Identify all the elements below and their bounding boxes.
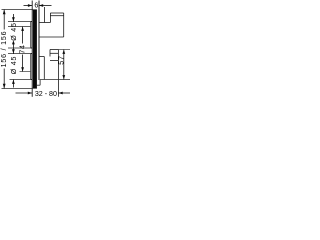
wall line — [38, 1, 40, 81]
lower column join edge — [39, 56, 44, 58]
bottom spigot bottom edge — [37, 84, 40, 86]
plate top cap — [32, 9, 37, 11]
upper box right edge — [63, 13, 65, 37]
plate bar (solid) — [33, 10, 37, 89]
ext line 57/depth bottom — [40, 79, 70, 81]
svg-text:6: 6 — [34, 1, 38, 9]
ext line knob2 bottom — [10, 79, 31, 81]
knob 1 (upper) profile — [31, 22, 32, 49]
lower column left edge — [43, 57, 45, 80]
lower box bottom edge — [50, 60, 58, 62]
plate front face line (also dim ticks top and bottom) — [31, 1, 33, 97]
ext line plate bottom — [2, 88, 33, 90]
ext line knob1 bottom — [8, 47, 30, 49]
arrow 57 bottom — [62, 75, 65, 79]
ext line knob1 top — [8, 21, 30, 23]
ext line plate top — [2, 9, 33, 11]
dim line Ø45 upper — [12, 14, 14, 22]
valve sleeve edge behind wall — [44, 7, 46, 23]
lower box right edge (continues down as tick for 32-80) — [57, 50, 59, 97]
ext line dimC top — [8, 26, 30, 28]
svg-text:32 - 80: 32 - 80 — [35, 90, 57, 98]
dim line 6 left tail — [24, 5, 33, 7]
dim line 57 — [63, 50, 65, 80]
plate bottom cap — [32, 87, 37, 89]
upper body bottom edge — [39, 36, 64, 38]
dim line between Ø45 dims — [12, 44, 14, 54]
arrow knob1-dim top — [12, 17, 15, 21]
dim line 32-80 right — [58, 92, 70, 94]
arrow dimC top — [21, 27, 24, 31]
arrow dimC bottom — [21, 67, 24, 71]
arrow 32-80 left — [28, 92, 32, 95]
bottom spigot right edge — [39, 80, 41, 86]
lower box left edge — [49, 50, 51, 57]
dim line 6 right tail — [39, 5, 52, 7]
arrow 156 bottom — [3, 84, 6, 89]
upper box top edge — [50, 12, 63, 14]
ext line 57 top — [58, 49, 70, 51]
dim line C upper — [22, 27, 24, 44]
lower box top edge — [50, 49, 58, 51]
arrow 6 right — [39, 4, 43, 7]
ext line knob2 top — [8, 53, 30, 55]
arrow 32-80 right — [59, 92, 63, 95]
svg-text:156 / 156: 156 / 156 — [0, 31, 8, 68]
svg-text:Ø 45: Ø 45 — [10, 56, 18, 75]
svg-text:74: 74 — [19, 44, 27, 54]
svg-text:57: 57 — [57, 55, 65, 65]
body step vertical — [49, 13, 51, 23]
ext line dimC bottom — [20, 71, 31, 73]
dim line 156 — [3, 10, 5, 30]
arrow 57 top — [62, 50, 65, 54]
dim line Ø45 lower tail — [12, 80, 14, 88]
arrow knob1-dim bottom — [12, 40, 15, 44]
upper box inner line — [50, 15, 63, 17]
svg-text:Ø 45: Ø 45 — [10, 22, 18, 41]
body neck top edge — [39, 22, 50, 24]
dim line C lower — [22, 55, 24, 72]
arrow 6 left — [28, 4, 32, 7]
dim line 32-80 left — [16, 92, 33, 94]
lower box inner line — [50, 52, 58, 54]
arrow 156 top — [3, 10, 6, 15]
arrow knob2-dim top — [12, 49, 15, 53]
arrow knob2-dim bottom — [12, 80, 15, 84]
knob 2 (lower) profile — [31, 54, 32, 80]
